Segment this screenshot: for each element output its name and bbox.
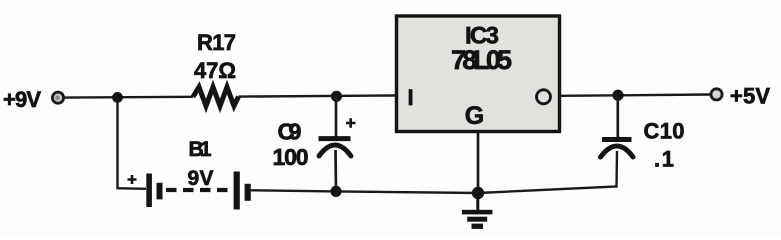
wire: IC ground pin down <box>477 132 480 194</box>
wire: battery to bottom rail <box>251 190 478 193</box>
svg-text:C10: C10 <box>644 119 685 144</box>
op-amp / regulator IC3 box <box>397 16 560 132</box>
svg-text:B1: B1 <box>189 138 212 161</box>
node junction C10 top <box>612 90 623 101</box>
battery B1 plus sign <box>128 175 137 184</box>
wire: resistor to IC input <box>239 96 396 97</box>
svg-text:.1: .1 <box>654 147 674 172</box>
node junction ground <box>472 187 484 199</box>
wire: C9 top lead <box>335 96 338 137</box>
resistor R17 <box>193 87 239 106</box>
node junction C9 top <box>331 91 342 102</box>
node junction at left branch <box>112 92 123 103</box>
svg-text:78L05: 78L05 <box>451 45 512 75</box>
battery B1 <box>146 172 251 210</box>
wire: C10 bottom lead and bottom right rail <box>478 151 617 193</box>
wire: C10 top lead <box>616 95 619 137</box>
C9 plus sign <box>346 118 356 127</box>
svg-text:+5V: +5V <box>730 84 770 109</box>
svg-text:47Ω: 47Ω <box>194 58 236 83</box>
wire: +9V terminal to resistor <box>64 96 193 99</box>
svg-text:C9: C9 <box>278 119 302 145</box>
pin O (output) circle <box>537 90 551 104</box>
svg-text:9V: 9V <box>188 167 214 190</box>
node +5V terminal <box>711 89 722 100</box>
svg-text:R17: R17 <box>197 30 236 55</box>
svg-text:G: G <box>465 102 484 130</box>
capacitor C9 <box>319 139 352 156</box>
capacitor C10 <box>601 140 634 158</box>
ground <box>462 193 493 229</box>
svg-text:100: 100 <box>273 144 309 170</box>
svg-text:+9V: +9V <box>3 87 41 112</box>
wire: left vertical branch down to battery <box>118 97 147 188</box>
svg-text:I: I <box>407 85 413 110</box>
wire: IC output to +5V terminal <box>560 95 710 96</box>
node junction C9 bottom <box>330 186 341 197</box>
node +9V terminal <box>52 92 63 103</box>
wire: C9 bottom lead <box>334 150 337 191</box>
